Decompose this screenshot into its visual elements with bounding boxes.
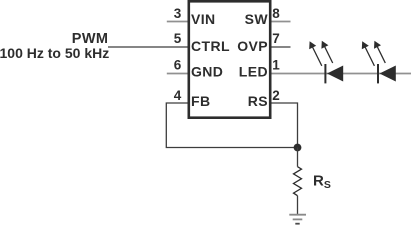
node PWM input label — [0, 31, 109, 61]
wire RS to node A — [272, 103, 298, 145]
LED D2 — [362, 41, 396, 84]
pin 8 SW — [245, 6, 291, 27]
svg-text:5: 5 — [174, 31, 182, 46]
IC U1 — [189, 1, 270, 117]
svg-text:1: 1 — [272, 58, 280, 73]
pin 4 FB — [174, 88, 211, 109]
resistor Rs — [294, 167, 302, 196]
pin 6 GND — [167, 58, 224, 80]
svg-text:SW: SW — [245, 11, 269, 27]
svg-text:GND: GND — [191, 64, 223, 80]
svg-text:3: 3 — [174, 6, 182, 21]
pin 1 LED — [239, 58, 281, 80]
svg-text:RS: RS — [248, 93, 268, 109]
svg-text:OVP: OVP — [237, 38, 268, 54]
LED D1 — [309, 41, 343, 84]
wire FB to node A — [166, 103, 295, 148]
svg-text:CTRL: CTRL — [191, 38, 230, 54]
svg-text:6: 6 — [174, 58, 182, 73]
svg-text:8: 8 — [272, 6, 280, 21]
svg-text:2: 2 — [272, 88, 280, 103]
pin 5 CTRL — [108, 31, 230, 54]
svg-text:FB: FB — [191, 93, 210, 109]
svg-text:7: 7 — [272, 31, 280, 46]
wire resistor to ground — [297, 196, 299, 215]
svg-text:VIN: VIN — [191, 11, 216, 27]
pin 7 OVP — [237, 31, 290, 54]
wire LED string — [272, 73, 411, 75]
svg-text:4: 4 — [174, 88, 182, 103]
pin 3 VIN — [167, 6, 216, 27]
ground — [289, 215, 306, 224]
svg-text:RS: RS — [313, 172, 331, 191]
pin 2 RS — [248, 88, 280, 109]
svg-text:100 Hz to 50 kHz: 100 Hz to 50 kHz — [0, 45, 109, 61]
wire node A to resistor — [297, 148, 299, 167]
svg-text:LED: LED — [239, 64, 268, 80]
node A junction — [294, 144, 302, 152]
